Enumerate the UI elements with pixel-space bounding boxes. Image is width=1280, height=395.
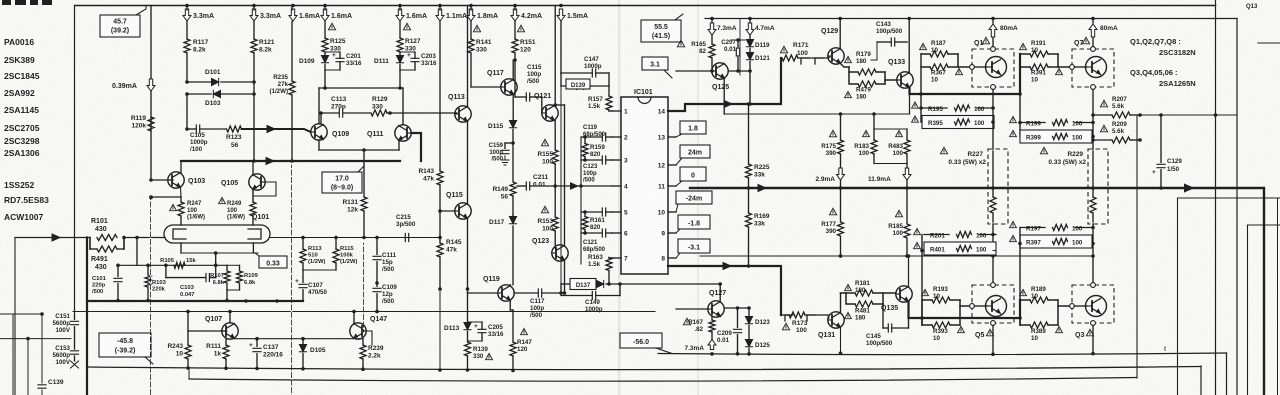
diode D123 <box>745 308 770 339</box>
resistor R209 <box>1091 121 1142 143</box>
wire mid feedback <box>270 236 440 240</box>
current source 1.5mA x=561 <box>557 4 588 21</box>
resistor R171 <box>780 42 827 64</box>
resistor R105 <box>160 258 196 268</box>
wire speaker line y198 <box>1178 198 1280 395</box>
mark script-l <box>1163 346 1167 353</box>
wire node B y265 <box>118 238 227 268</box>
resistor R147 <box>510 328 532 372</box>
resistor R189 <box>1020 286 1058 303</box>
current 11.9mA <box>868 164 911 190</box>
voltage box -24m <box>676 191 712 212</box>
frame top border <box>75 5 1216 7</box>
resistor R149 <box>492 143 516 215</box>
wire pin4 long <box>555 183 612 189</box>
capacitor C139 <box>38 379 64 395</box>
voltage box 1.8 <box>676 121 706 137</box>
transistor Q105 <box>221 174 265 190</box>
capacitor C101 <box>92 264 122 303</box>
IC101 body <box>621 89 668 274</box>
resistor R115 <box>303 238 357 271</box>
wire Q117 collector <box>513 58 517 79</box>
wire bottom rail A <box>658 353 1227 395</box>
IC101 pin 11 <box>658 184 676 191</box>
scan seam 1 <box>618 0 621 395</box>
transistor Q1 <box>970 37 1014 89</box>
IC101 pin 4 <box>612 184 628 191</box>
wire x187 mid <box>185 53 189 131</box>
wire Q127 collector <box>718 282 722 301</box>
wire col x1020 pair <box>1019 300 1021 325</box>
current 80mA a <box>989 24 1018 37</box>
resistor R121 <box>251 39 275 53</box>
diode D119 <box>746 35 770 52</box>
capacitor C211 <box>517 174 557 190</box>
wire rail x151 lower <box>149 91 153 199</box>
output rail arrow <box>1185 184 1194 192</box>
wire input line <box>15 238 90 395</box>
resistor R185 <box>888 188 910 258</box>
callout 17.0 <box>322 166 364 193</box>
resistor R113 <box>300 238 325 271</box>
resistor R141 <box>468 25 492 53</box>
resistor R207 <box>1091 96 1142 118</box>
IC101 pin 2 <box>612 135 628 142</box>
resistor R393 <box>922 300 970 342</box>
transistor Q107 <box>188 312 238 340</box>
wire Q3 emitter <box>1091 325 1095 355</box>
wire Q5 emitter <box>991 325 995 356</box>
voltage box 0 <box>676 167 706 186</box>
wire Q103 emitter <box>151 188 181 198</box>
IC101 pin 7 <box>612 256 628 263</box>
capacitor C115 <box>515 64 542 113</box>
resistors R195 R395 <box>912 102 994 129</box>
wire Q127 junction <box>724 306 751 310</box>
output rail arrow 2 <box>758 185 766 192</box>
capacitor C119 <box>581 125 612 141</box>
resistor R103 <box>145 264 167 303</box>
resistor R165 <box>677 17 736 71</box>
wire V+ top rail <box>705 18 1216 20</box>
transistor Q127 <box>676 290 726 317</box>
IC101 pin 8 <box>661 256 676 263</box>
wire emitter link <box>235 337 354 341</box>
wire Q113 collector <box>467 6 469 107</box>
wire speaker line y225 <box>1248 225 1280 395</box>
IC101 pin 12 <box>658 163 676 170</box>
wire x561 rail <box>559 86 563 295</box>
wire Q125 junction <box>728 69 752 106</box>
resistor R161 <box>582 210 605 235</box>
wire Q1-Q5 column <box>991 224 995 283</box>
capacitor C201 <box>325 52 362 70</box>
resistor R181 <box>841 280 884 296</box>
wire thick to Q109 <box>242 126 311 133</box>
current 7.3mA low <box>684 340 716 356</box>
resistor R123 <box>226 126 242 149</box>
wire Q133 emitter thick <box>910 54 1021 94</box>
current 80mA b <box>1089 24 1118 37</box>
current source 1.8mA x=471 <box>467 4 498 21</box>
transistor Q117 <box>471 6 517 96</box>
wire Q103 collector <box>180 161 182 173</box>
output rail thick <box>690 188 1264 395</box>
text part list <box>4 37 49 222</box>
transistor Q119 <box>468 276 515 301</box>
text Q13 corner <box>1246 4 1258 10</box>
wire Q1 emitter column <box>991 89 995 149</box>
resistor R243 <box>167 312 191 370</box>
wire Q119 collector <box>509 284 511 286</box>
transistor Q111 <box>367 125 411 141</box>
resistor R239 <box>358 339 384 371</box>
current source 1.6mA x=293 <box>289 4 320 21</box>
capacitor C151 <box>52 313 78 349</box>
resistor R247 <box>170 197 205 225</box>
transistor Q133 <box>888 59 913 88</box>
callout -56.0 <box>620 333 672 354</box>
bus right line x1237 <box>1216 19 1238 395</box>
section line x291 <box>291 165 293 395</box>
capacitor C203 <box>400 52 437 70</box>
resistors R197 R397 <box>1010 221 1093 248</box>
diode D113 <box>444 293 471 341</box>
voltage box -3.1 <box>676 239 710 258</box>
resistor R225 <box>746 102 770 190</box>
resistors R201 R401 <box>914 228 996 255</box>
resistor R129 <box>371 96 392 116</box>
IC101 pin 14 <box>658 109 676 116</box>
wire col x921 <box>919 54 923 122</box>
capacitor C137 <box>249 339 283 371</box>
resistor R139 <box>465 342 493 372</box>
resistor R479 <box>845 67 897 101</box>
resistor R491 <box>90 238 124 272</box>
diode D101 <box>185 69 256 86</box>
wire Q121 emitter <box>554 121 556 150</box>
resistor R483 <box>888 129 910 164</box>
resistor R187 <box>920 40 958 57</box>
wire Q135 emitter thick <box>909 300 1021 318</box>
resistor R117 <box>184 39 209 53</box>
capacitor C145 <box>866 304 909 347</box>
wire Q1 collector <box>991 17 995 47</box>
wire pin7 down <box>580 258 582 264</box>
wire Q129 collector <box>838 17 842 49</box>
capacitor C109 <box>373 281 397 313</box>
resistor R389 <box>1020 300 1070 342</box>
wire col x1020 upper <box>1018 54 1022 137</box>
capacitor C159 <box>489 143 513 165</box>
resistor R157 <box>588 86 612 111</box>
input signal arrow <box>52 234 60 241</box>
resistor R127 <box>397 23 421 52</box>
current source 1.1mA x=440 <box>436 4 467 21</box>
diode D105 <box>299 339 326 371</box>
wire Q111 base wire <box>390 112 457 114</box>
scan noise overlay <box>0 0 1 1</box>
resistor R179 <box>845 51 885 75</box>
resistor R159 <box>582 135 605 162</box>
current source 0.39mA <box>112 6 155 92</box>
capacitor C143 <box>871 21 907 60</box>
wire Q131 collector <box>840 293 842 313</box>
resistor R143 <box>418 6 443 212</box>
wire input node <box>122 236 165 240</box>
wire Q119 emitter <box>510 301 513 342</box>
resistor R153 <box>537 186 558 248</box>
capacitor C153 <box>52 345 78 368</box>
resistor R249 <box>219 190 256 225</box>
resistor R125 <box>322 23 346 52</box>
wire Q115 base <box>440 210 455 212</box>
wire col x1020 lower <box>1018 228 1022 326</box>
resistor R481 <box>845 293 896 322</box>
transistor Q5 <box>970 283 1014 339</box>
resistor R191 <box>1020 40 1058 57</box>
diode D121 <box>746 53 770 72</box>
wire x400 rail <box>399 6 401 39</box>
callout 45.7 <box>100 6 146 38</box>
wire node A y253 <box>181 243 258 255</box>
wire Q7-Q3 column <box>1091 224 1095 283</box>
capacitor C123 <box>581 156 612 184</box>
current source 4.2mA x=515 <box>511 4 542 21</box>
capacitor C117 <box>514 289 561 319</box>
frame left border <box>74 6 76 317</box>
wire Q113-Q115 <box>467 122 469 203</box>
wire Q121 collector <box>553 6 564 107</box>
capacitor C113 <box>319 96 370 124</box>
resistor R177 <box>821 188 843 258</box>
capacitor C129 <box>1152 115 1182 190</box>
resistor R391 <box>1020 54 1070 84</box>
transistor Q147 <box>350 312 387 340</box>
callout 0.33 <box>255 253 287 268</box>
section line x150 <box>149 196 153 395</box>
voltage box -1.8 <box>676 215 710 233</box>
transistor Q7 <box>1070 37 1114 89</box>
resistor R175 <box>815 114 844 190</box>
diode D111 <box>374 52 404 70</box>
resistor R163 <box>588 254 612 284</box>
capacitor C207 <box>721 38 745 71</box>
callout 55.5 <box>641 14 683 42</box>
transistor Q121 <box>534 93 558 121</box>
callout 3.1 <box>642 57 672 78</box>
resistor R183 <box>854 114 907 164</box>
resistor R193 <box>922 286 960 303</box>
transistor Q123 <box>532 238 568 261</box>
wire left stubs <box>0 312 71 395</box>
IC101 pin 13 <box>658 135 676 142</box>
resistor R235 <box>269 6 295 162</box>
capacitor C107 <box>295 270 327 301</box>
capacitor C149 <box>561 282 622 313</box>
wire Q123 collector <box>564 105 566 245</box>
transistor Q3 <box>1070 283 1114 339</box>
frame right border <box>1215 0 1217 395</box>
wire lower mid rail <box>700 254 1093 258</box>
transistor Q109 <box>311 124 349 140</box>
scan seam 2 <box>697 0 699 395</box>
resistor R131 <box>342 150 367 239</box>
wire VAS collector net <box>319 70 403 125</box>
capacitor C215 <box>396 214 416 242</box>
diode D103 <box>185 90 256 107</box>
capacitor C209 <box>717 306 742 355</box>
wire x187 rail <box>186 6 188 40</box>
diode D109 <box>299 52 329 70</box>
wire top-right stub <box>1258 42 1280 44</box>
resistor R367 <box>921 54 970 84</box>
capacitor C103 <box>166 265 216 298</box>
diode D117 <box>489 215 517 285</box>
resistor R109 <box>225 265 258 302</box>
resistor R101 <box>91 218 117 241</box>
capacitor C205 <box>468 322 505 341</box>
resistor R227 <box>940 147 1008 224</box>
wire x254 rail <box>253 6 255 162</box>
wire Q115 emitter col <box>466 219 470 293</box>
IC101 pin 6 <box>612 231 628 238</box>
wire col x922 lower <box>920 235 924 326</box>
transistor Q103 <box>151 172 205 188</box>
wire thick drive y161 <box>181 158 400 165</box>
voltage box 24m <box>676 145 710 165</box>
transistor Q131 <box>818 312 844 339</box>
IC101 pin 3 <box>612 158 628 165</box>
wire thick bias bus <box>87 238 303 395</box>
transistor Q115 <box>446 192 471 219</box>
transistor Q125 <box>676 63 729 91</box>
IC101 pin 10 <box>658 210 676 217</box>
resistor R151 <box>512 6 536 98</box>
wire Q147 base <box>366 331 372 345</box>
IC101 pin 9 <box>661 231 676 238</box>
wire gnd bus y311 <box>73 310 655 314</box>
current source 3.3mA x=254 <box>250 4 281 21</box>
capacitor C111 <box>373 238 397 284</box>
diode D125 <box>745 340 770 356</box>
wire col x922 pair <box>921 300 923 325</box>
wire Q123 emitter <box>561 261 566 295</box>
wire Q129 emitter <box>841 64 850 68</box>
wire Q105 base loop <box>253 182 276 202</box>
section line x363 <box>363 243 365 332</box>
transistor Q101 dual-FET <box>164 214 270 243</box>
resistor R167 <box>683 317 715 340</box>
bus pin9 thick <box>668 263 781 316</box>
wire Q7 emitter column <box>1091 89 1095 149</box>
current source 1.6mA x=325 <box>321 4 352 21</box>
diode D139 <box>561 79 609 90</box>
diode D115 <box>488 95 517 145</box>
resistor R145 <box>437 209 462 289</box>
resistor R169 <box>746 188 770 268</box>
resistor R107 <box>210 265 230 290</box>
transistor Q135 <box>881 286 912 312</box>
text Q types <box>1130 37 1196 88</box>
wire Q105 collector <box>252 161 254 175</box>
capacitor C105 <box>187 125 226 153</box>
bus pin14 thick <box>668 58 781 111</box>
resistor R119 <box>131 115 154 131</box>
resistor R229 <box>1040 147 1108 224</box>
wire x325 rail <box>324 6 326 39</box>
wire Q135 collector <box>908 256 910 287</box>
current 4.7mA <box>746 17 775 35</box>
transistor Q129 <box>821 28 844 64</box>
callout -45.8 <box>99 333 153 364</box>
IC101 pin 1 <box>612 109 628 116</box>
resistor R111 <box>206 339 229 370</box>
wire ladder rail <box>579 137 583 264</box>
resistors R199 R399 <box>1010 116 1093 143</box>
wire R145 lower <box>438 287 442 372</box>
wire Q7 collector <box>1091 17 1095 47</box>
IC101 pin 5 <box>612 210 628 217</box>
wire y115 to right <box>1140 113 1237 117</box>
current source 3.3mA x=187 <box>183 4 214 21</box>
wire Q111 emitter thick <box>411 133 421 161</box>
transistor Q113 <box>448 94 471 122</box>
wire Q133 collector <box>907 17 911 73</box>
wire VAS emitters <box>319 140 399 152</box>
capacitor C147 <box>561 22 609 87</box>
resistor R173 <box>781 312 828 334</box>
wire Q131 emitter <box>839 328 843 356</box>
diode D137 <box>561 279 720 292</box>
text cut-off title <box>2 0 52 5</box>
wire bottom rail B <box>87 366 1201 395</box>
capacitor C121 <box>581 208 612 253</box>
wire Q125 emitter y114 <box>724 79 909 116</box>
dash-dot align <box>740 19 742 76</box>
wire bottom rail C <box>189 115 1137 381</box>
resistor R155 <box>537 139 558 186</box>
current source 1.6mA x=400 <box>396 4 427 21</box>
